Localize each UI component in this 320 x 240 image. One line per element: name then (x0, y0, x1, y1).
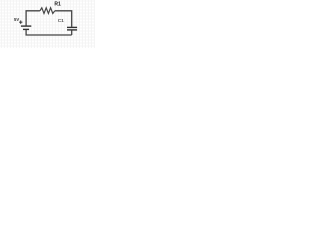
battery + polarity mark (19, 20, 22, 24)
battery 5V (long + plate, short - plate) (21, 26, 31, 29)
svg-text:C1: C1 (58, 18, 64, 23)
wire: capacitor to bottom wire (71, 30, 73, 35)
wire: resistor to capacitor (top-right corner) (55, 11, 72, 27)
svg-text:R1: R1 (54, 2, 61, 8)
wire: bottom return to battery (26, 30, 72, 35)
resistor R1 (40, 8, 55, 14)
capacitor C1 (67, 27, 77, 30)
svg-text:5V: 5V (14, 17, 19, 22)
wire: top from battery corner to resistor (26, 11, 40, 26)
